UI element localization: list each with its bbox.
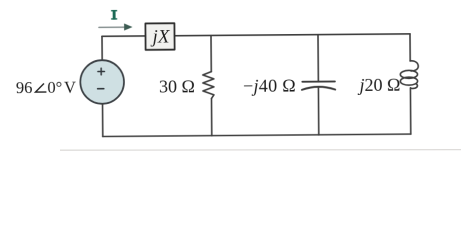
svg-text:jX: jX <box>149 26 170 47</box>
wire: resistor branch bottom <box>210 98 212 135</box>
svg-text:V: V <box>64 78 76 97</box>
impedance box jX <box>145 23 174 50</box>
svg-text:j20 Ω: j20 Ω <box>357 75 400 95</box>
wire: bottom rail <box>103 134 411 136</box>
wire: right, top corner down to inductor <box>409 34 411 61</box>
current arrow <box>99 26 125 28</box>
wire: top, source to jX box <box>102 35 146 37</box>
voltage source circle <box>80 60 124 104</box>
wire: right, inductor to bottom-right corner <box>409 88 411 134</box>
resistor 30 ohm zigzag <box>203 72 214 99</box>
capacitor curved bottom plate <box>302 87 335 90</box>
wire: resistor branch top <box>210 35 212 71</box>
inductor j20 ohm coil <box>400 61 418 89</box>
capacitor -j40 ohm: top plate <box>302 80 334 82</box>
wire: top, jX box to top-right corner <box>174 34 410 36</box>
svg-text:96: 96 <box>16 78 33 97</box>
svg-text:0°: 0° <box>47 78 62 97</box>
wire: left, source bottom to bottom-left corner <box>102 104 104 137</box>
svg-text:−j40 Ω: −j40 Ω <box>243 75 296 95</box>
current label I <box>111 10 117 20</box>
svg-text:30 Ω: 30 Ω <box>159 76 195 96</box>
wire: left, top corner down to source <box>101 36 103 60</box>
wire: capacitor branch top <box>317 35 319 82</box>
wire: capacitor branch bottom <box>317 87 319 135</box>
faint page rule at bottom <box>60 149 461 152</box>
source value label 96&#x2220;0&#xB0; V <box>16 78 76 97</box>
minus sign <box>98 88 104 90</box>
plus sign <box>98 68 105 75</box>
